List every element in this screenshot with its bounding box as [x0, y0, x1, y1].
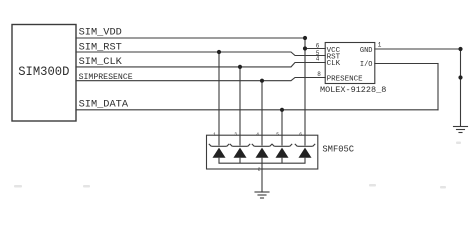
svg-text:6: 6: [316, 43, 320, 50]
svg-text:3: 3: [234, 132, 237, 138]
svg-text:SIM_RST: SIM_RST: [79, 41, 122, 53]
svg-text:4: 4: [316, 55, 320, 62]
svg-text:SIM_CLK: SIM_CLK: [79, 56, 123, 68]
svg-text:8: 8: [317, 71, 321, 78]
svg-text:SIMPRESENCE: SIMPRESENCE: [79, 73, 133, 82]
svg-text:5: 5: [276, 132, 279, 138]
svg-text:1: 1: [378, 42, 382, 49]
svg-text:SIM_VDD: SIM_VDD: [79, 27, 122, 39]
svg-text:MOLEX-91228_8: MOLEX-91228_8: [320, 85, 386, 95]
svg-text:4: 4: [256, 132, 259, 138]
svg-text:GND: GND: [360, 47, 373, 55]
svg-text:SIM_DATA: SIM_DATA: [79, 99, 129, 111]
svg-text:I/O: I/O: [360, 61, 373, 69]
svg-text:1: 1: [213, 132, 216, 138]
svg-text:PRESENCE: PRESENCE: [327, 75, 364, 83]
svg-text:6: 6: [299, 132, 302, 138]
svg-text:2: 2: [258, 167, 261, 173]
svg-text:SMF05C: SMF05C: [322, 145, 354, 155]
svg-text:CLK: CLK: [327, 60, 341, 68]
svg-text:SIM300D: SIM300D: [18, 64, 69, 79]
